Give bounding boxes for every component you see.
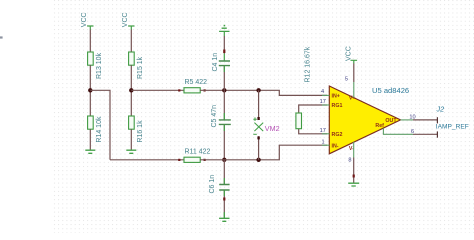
svg-text:1: 1: [321, 139, 324, 145]
junction node C5/C6 bottom: [222, 158, 226, 162]
ground (branch 1): [85, 150, 95, 153]
svg-text:J2: J2: [436, 105, 445, 114]
resistor R13: [88, 52, 94, 65]
pin stubs left (green): [322, 95, 329, 145]
port J2 tick Ref: [436, 131, 438, 137]
wire node to probe +: [258, 90, 260, 120]
resistor R16: [129, 116, 135, 129]
junction node VM2 top: [256, 88, 260, 92]
wire R15 to node: [130, 65, 132, 116]
junction node C4/C5 top: [222, 88, 226, 92]
resistor R14: [88, 116, 94, 129]
wire C5 to bottom net: [223, 124, 225, 159]
svg-text:17: 17: [320, 128, 326, 134]
wire VCC to R15: [130, 30, 132, 53]
svg-text:V+: V+: [349, 96, 356, 102]
svg-text:10: 10: [409, 114, 415, 120]
plus marker: [253, 117, 256, 121]
resistor R11: [184, 157, 200, 162]
ground (op-amp V-): [348, 183, 359, 186]
ground (branch 2): [126, 150, 136, 153]
power VCC (op-amp V+): [351, 60, 358, 63]
wire R14 to ground: [89, 129, 91, 150]
svg-text:5: 5: [345, 77, 348, 83]
wire RG1 net: [299, 105, 327, 113]
probe VM2 X symbol: [254, 123, 263, 132]
svg-text:4: 4: [321, 89, 324, 95]
svg-text:VCC: VCC: [81, 12, 88, 27]
svg-text:R5 422: R5 422: [185, 79, 208, 86]
power VCC (branch 1): [87, 26, 93, 30]
svg-text:VCC: VCC: [346, 46, 353, 61]
svg-text:R13 10k: R13 10k: [96, 52, 103, 79]
wire node1 right and down to bottom net: [90, 90, 110, 160]
inverted ground above C4: [219, 28, 229, 31]
svg-text:IN+: IN+: [332, 94, 340, 100]
wire V- to ground: [353, 158, 355, 184]
svg-text:IN-: IN-: [332, 143, 339, 149]
port J2 tick OUT: [436, 117, 438, 123]
wire VCC to V+ pin: [353, 64, 355, 83]
pin stub Ref: [383, 128, 413, 134]
wire node2 to R5: [131, 89, 184, 91]
pin stub V+: [353, 82, 355, 98]
svg-text:C4 1n: C4 1n: [212, 53, 219, 72]
svg-text:IAMP_REF: IAMP_REF: [436, 124, 469, 131]
capacitor C6: [219, 185, 229, 191]
wire R11 to IN- with jog: [200, 145, 327, 160]
ground (C6): [219, 218, 229, 221]
wire gnd to C4: [223, 31, 225, 36]
wire R16 to ground: [130, 129, 132, 150]
svg-text:C6 1n: C6 1n: [209, 175, 216, 194]
wire OUT to J2: [413, 119, 438, 121]
svg-text:VCC: VCC: [122, 12, 129, 27]
wire Ref to J2: [413, 133, 438, 135]
capacitor C5: [219, 120, 231, 125]
wire R13 to node: [89, 65, 91, 116]
wire RG2 net: [299, 129, 327, 134]
svg-text:U5 ad8426: U5 ad8426: [372, 86, 409, 95]
stray mark left edge: [0, 36, 3, 38]
svg-text:R11 422: R11 422: [185, 148, 211, 155]
svg-text:R14 10k: R14 10k: [96, 116, 103, 143]
junction node VM2 bottom: [256, 158, 260, 162]
pin stub V-: [353, 142, 355, 158]
svg-text:R16 1k: R16 1k: [137, 120, 144, 143]
wire probe - to node: [258, 136, 260, 160]
svg-text:R15 1k: R15 1k: [137, 56, 144, 79]
wire R5 to IN+ with jog: [200, 90, 327, 95]
svg-text:R12 16.67k: R12 16.67k: [304, 46, 311, 82]
op-amp U5 body: [329, 86, 400, 154]
svg-text:Ref: Ref: [375, 123, 384, 129]
svg-text:17: 17: [320, 99, 326, 105]
junction node branch2: [129, 88, 133, 92]
wire node to C6: [223, 160, 225, 185]
resistor R12: [296, 113, 302, 129]
resistor R5: [184, 88, 200, 93]
svg-text:RG1: RG1: [332, 103, 343, 109]
wire left corner to R11: [110, 159, 184, 161]
minus marker: [253, 133, 256, 135]
pin nubs R5: [178, 89, 180, 91]
svg-text:C5 47n: C5 47n: [211, 105, 218, 128]
junction node branch1: [88, 88, 92, 92]
svg-text:VM2: VM2: [265, 124, 280, 133]
svg-text:8: 8: [348, 158, 351, 164]
resistor R15: [129, 52, 135, 65]
svg-text:RG2: RG2: [332, 132, 343, 138]
wire node to C5: [223, 90, 225, 120]
capacitor C4: [219, 61, 230, 66]
wire C6 to ground: [223, 190, 225, 218]
svg-text:6: 6: [411, 129, 414, 135]
wire VCC to R13: [89, 30, 91, 53]
power VCC (branch 2): [128, 26, 134, 30]
pin nubs R11: [178, 159, 180, 161]
pin names inside: [332, 94, 398, 152]
pin stub OUT: [401, 119, 414, 121]
svg-text:OUT: OUT: [385, 118, 397, 124]
pin numbers left: [320, 89, 326, 145]
wire C4 to node: [223, 66, 225, 91]
